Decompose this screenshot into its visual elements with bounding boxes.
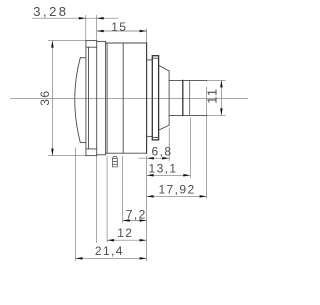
- svg-text:7,2: 7,2: [126, 208, 147, 222]
- extension line 11 top: [207, 79, 226, 81]
- lens lip bottom: [80, 142, 86, 144]
- arrow 7,2 right: [140, 219, 147, 222]
- dimension line 12: [107, 239, 147, 241]
- arrow 13,1 right: [183, 174, 190, 177]
- set screw outline: [113, 157, 118, 167]
- body top edge rear: [106, 42, 147, 44]
- svg-text:6,8: 6,8: [152, 144, 173, 158]
- set screw line 3: [113, 163, 118, 165]
- body back face: [146, 43, 148, 153]
- ring boundary x=96.7: [96, 41, 98, 156]
- extension line top left (dim 3,28 left): [85, 15, 87, 40]
- body top edge front: [86, 40, 97, 42]
- svg-text:3,28: 3,28: [33, 4, 68, 19]
- body front inner line: [88, 47, 90, 149]
- arrow 17,92 left: [147, 195, 154, 198]
- lens lip top: [80, 57, 86, 59]
- svg-text:17,92: 17,92: [158, 183, 195, 197]
- arrow 21,4 right: [140, 257, 147, 260]
- body top edge section2: [97, 40, 106, 42]
- dimension line 17,92: [147, 195, 207, 197]
- dimension line 3,28: [32, 17, 118, 19]
- dimension line 6,8: [139, 157, 170, 159]
- body front face: [85, 41, 87, 156]
- dimension line 36: [51, 41, 53, 156]
- taper top: [159, 65, 170, 71]
- extension line x=169.2 (dim 6,8 right): [168, 128, 170, 161]
- svg-text:13,1: 13,1: [149, 161, 178, 175]
- svg-text:36: 36: [38, 90, 52, 106]
- set screw line 1: [113, 157, 118, 159]
- barrel division x=182.8: [182, 80, 184, 115]
- extension line x=75.5 (dim 21,4 left): [75, 148, 77, 262]
- svg-text:12: 12: [117, 226, 133, 240]
- extension line x=107.1 (dim 12 left): [106, 156, 108, 243]
- dimension line 15: [97, 30, 147, 32]
- arrow 36 top: [51, 41, 54, 48]
- arrow 3,28 right: [97, 17, 104, 20]
- barrel division x=189.7: [189, 80, 191, 115]
- svg-text:21,4: 21,4: [95, 244, 124, 258]
- extension line x=96.7 lower: [96, 156, 98, 243]
- dimension line 11: [220, 80, 222, 115]
- arrow 12 left: [107, 239, 114, 242]
- barrel step face: [168, 71, 170, 125]
- ring boundary x=105.6: [105, 41, 107, 154]
- ring boundary x=123.2: [122, 43, 124, 153]
- arrow 11 top: [220, 80, 223, 87]
- arrow 11 bottom: [220, 108, 223, 115]
- body bottom edge section2: [97, 154, 106, 156]
- spacer ring outline: [152, 56, 158, 140]
- arrow 17,92 right: [200, 195, 207, 198]
- arrow 12 right: [140, 239, 147, 242]
- extension line x=190.3 (dim 13,1 right): [189, 118, 191, 179]
- front ring bevel bottom: [86, 148, 97, 150]
- arrow 3,28 left: [79, 17, 86, 20]
- shoulder line bottom: [147, 135, 153, 137]
- extension line x=122.7 (dim 7,2 left): [122, 156, 124, 223]
- ring boundary x=107.1: [106, 43, 108, 153]
- taper bottom: [159, 125, 170, 130]
- body bottom edge front: [86, 155, 97, 157]
- extension line x=146.6 lower (right end of bottom dims): [146, 156, 148, 261]
- svg-text:11: 11: [205, 87, 220, 103]
- dimension line 13,1: [147, 174, 191, 176]
- extension line 36 top: [48, 40, 86, 42]
- arrow 15 right: [140, 30, 147, 33]
- lens arc: [75, 58, 81, 143]
- set screw line 2: [113, 161, 118, 163]
- svg-text:15: 15: [111, 20, 127, 34]
- dimension line 7,2: [123, 220, 147, 222]
- body bottom edge rear: [106, 152, 147, 154]
- arrow 13,1 left: [147, 174, 154, 177]
- spacer cap line bottom: [152, 136, 158, 138]
- spacer cap line top: [152, 57, 158, 59]
- arrow 6,8 right: [162, 157, 169, 160]
- extension line top right (dim 15 right): [146, 29, 148, 43]
- arrow 21,4 left: [76, 257, 83, 260]
- center line: [10, 97, 248, 99]
- arrow 7,2 left: [123, 219, 130, 222]
- barrel bottom edge: [169, 114, 207, 116]
- arrow 36 bottom: [51, 149, 54, 156]
- front ring bevel top: [86, 46, 97, 48]
- shoulder line top: [147, 59, 153, 61]
- dimension line 21,4: [76, 257, 147, 259]
- arrow 6,8 left: [147, 157, 154, 160]
- extension line top (dim 3,28 right / 15 left): [96, 15, 98, 40]
- extension line 36 bottom: [48, 155, 86, 157]
- extension line x=206.6 / barrel end face (dim 17,92 right): [206, 87, 208, 199]
- barrel top edge: [169, 79, 207, 81]
- arrow 15 left: [97, 30, 104, 33]
- extension line 11 bottom: [207, 114, 226, 116]
